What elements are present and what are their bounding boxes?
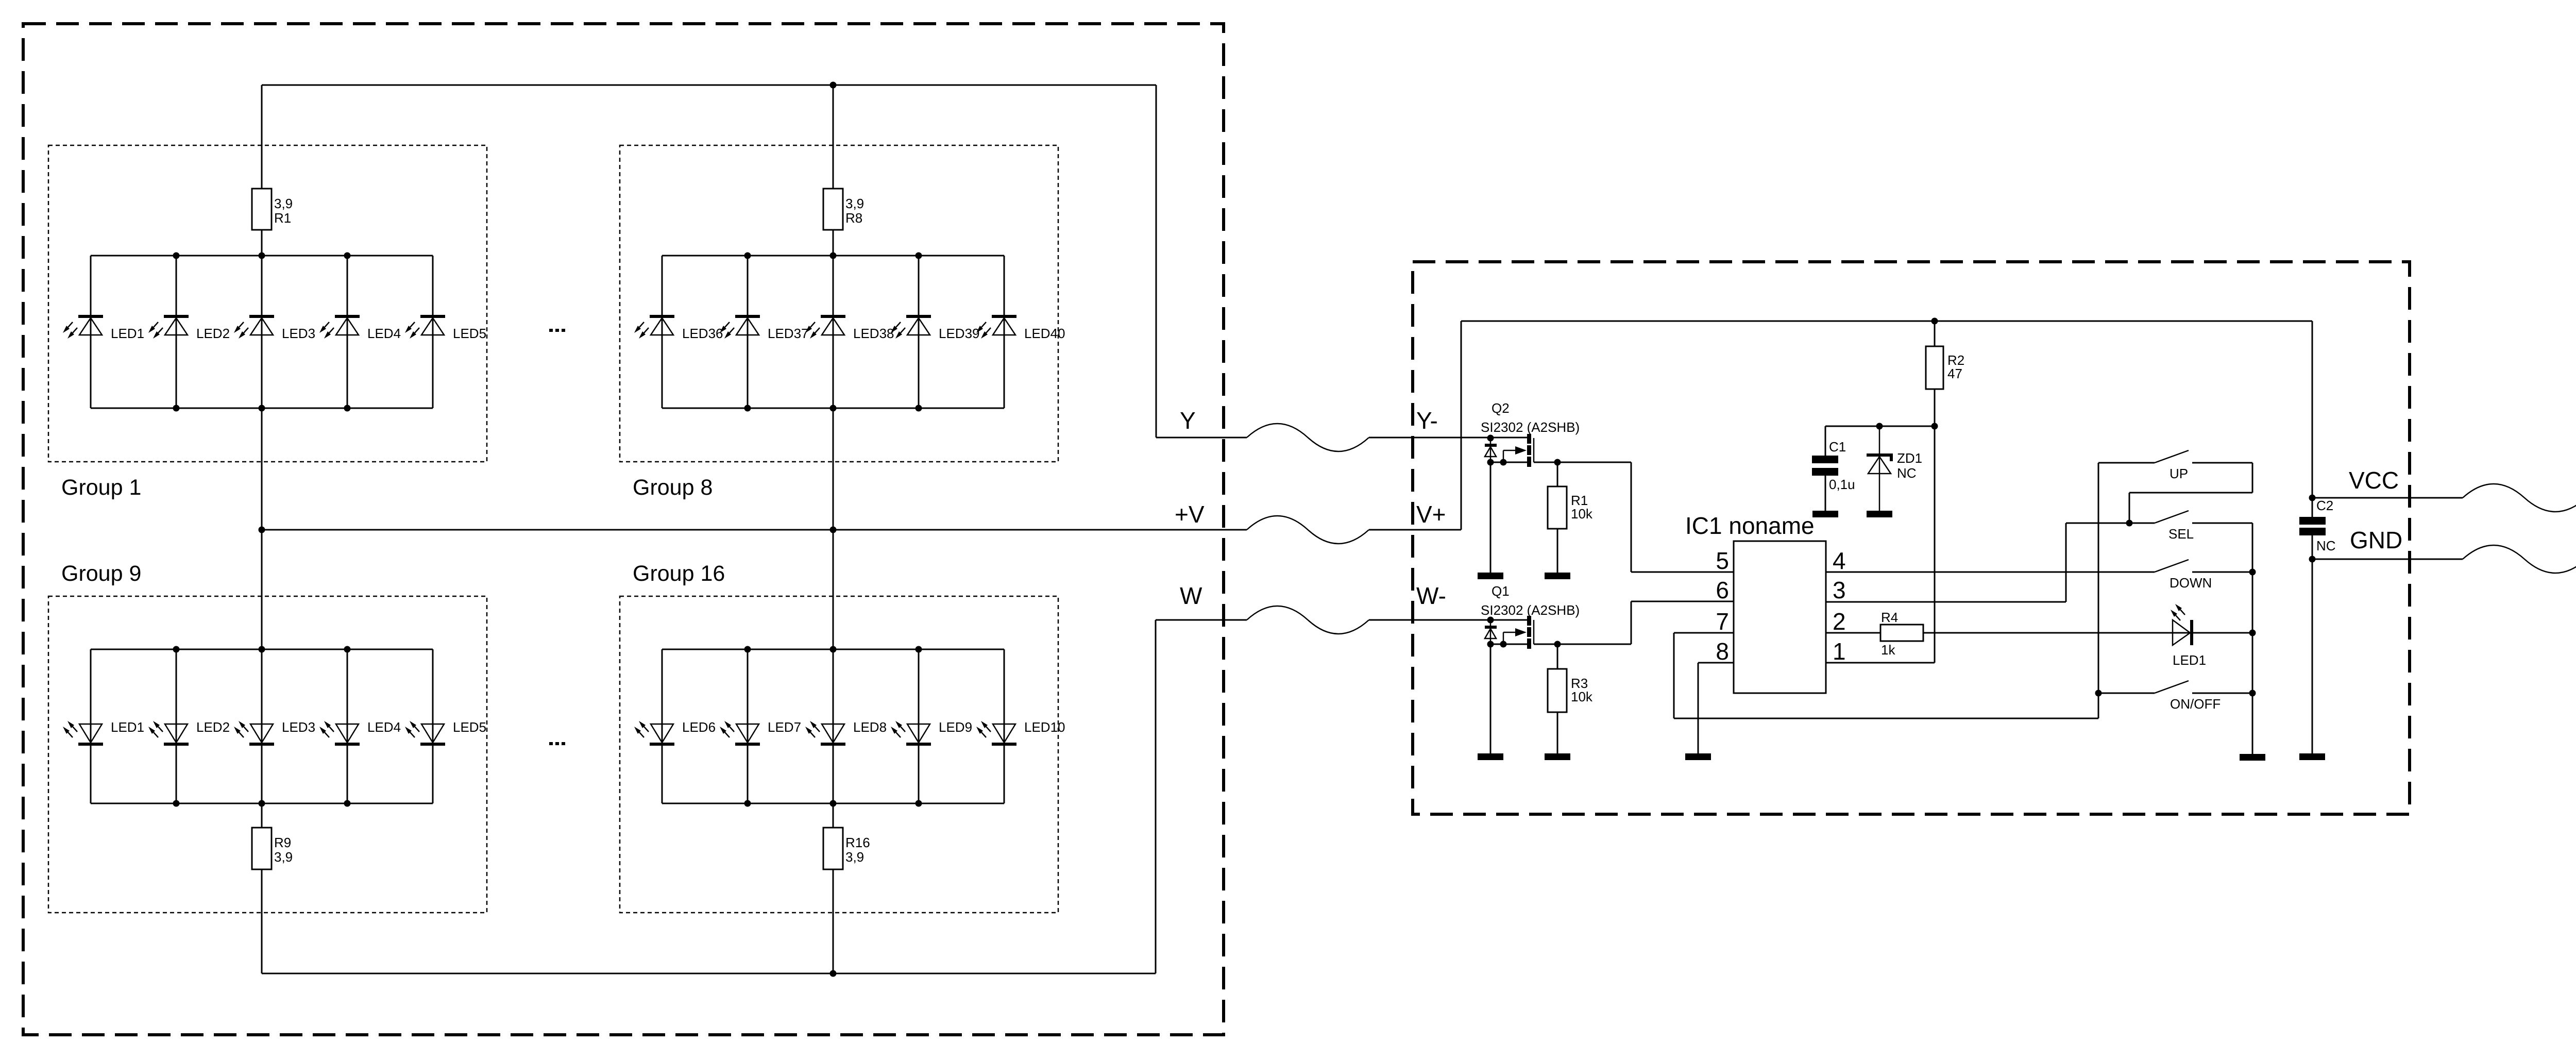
junctions on Group 16 anode rail (744, 646, 922, 653)
svg-text:LED3: LED3 (282, 719, 315, 735)
pin 7 (1716, 608, 1729, 635)
capacitor C2 NC (2299, 498, 2336, 559)
controller enclosure (dashed) (1413, 262, 2410, 814)
wire W- to Q1 drain (1369, 619, 1527, 621)
svg-text:Q1: Q1 (1492, 583, 1510, 599)
wire Q1 source to ground (1490, 644, 1492, 753)
wire +V bus to Group 9 anode rail (261, 530, 263, 649)
svg-text:NC: NC (1897, 465, 1917, 481)
wire Group 1 cathode rail to +V bus (261, 408, 263, 530)
wire pin 2 stub (1826, 632, 1880, 634)
junction ON/OFF left (2095, 690, 2102, 697)
svg-text:SEL: SEL (2168, 526, 2194, 542)
wire Y drop (1156, 85, 1157, 438)
svg-text:SI2302 (A2SHB): SI2302 (A2SHB) (1481, 602, 1580, 618)
Group 1 anode rail (91, 255, 433, 257)
junction SEL left (2126, 520, 2133, 527)
wire V+ riser (1461, 321, 1462, 530)
LED LED36 (Group 8) (634, 256, 723, 408)
wire R1 to ground (1557, 529, 1558, 573)
resistor R1 3,9 (252, 189, 293, 230)
switch DOWN (2155, 560, 2252, 572)
svg-text:4: 4 (1833, 547, 1846, 574)
wire top rail drop to VCC (2312, 321, 2313, 498)
switch SEL (2155, 511, 2252, 523)
pin 3 (1833, 577, 1846, 603)
ground right rail (2240, 754, 2265, 761)
wire bus to R8 (833, 85, 834, 189)
svg-text:8: 8 (1716, 638, 1729, 665)
svg-text:LED39: LED39 (939, 326, 980, 341)
svg-text:3,9: 3,9 (845, 196, 864, 211)
svg-text:LED2: LED2 (196, 326, 230, 341)
junction Q1 gate / R3 (1554, 641, 1561, 648)
LED LED39 (Group 8) (891, 256, 980, 408)
svg-text:C2: C2 (2316, 498, 2333, 513)
svg-text:C1: C1 (1829, 439, 1846, 455)
wire R8 to anode rail (833, 230, 834, 256)
ground C2 (2299, 753, 2325, 760)
wire bus to R1 (261, 85, 263, 189)
wire Y to cable (1156, 437, 1247, 439)
Group 8 anode rail (662, 255, 1004, 257)
svg-text:GND: GND (2350, 527, 2402, 553)
wire W bus (bottom) (262, 973, 1156, 974)
svg-text:R16: R16 (845, 835, 870, 850)
wire Group 8 cathode rail to +V bus (833, 408, 834, 530)
wire cathode rail to R9 (261, 803, 263, 828)
svg-text:R8: R8 (845, 210, 862, 226)
svg-text:0,1u: 0,1u (1829, 477, 1855, 492)
svg-text:V+: V+ (1416, 501, 1446, 528)
svg-text:W: W (1180, 582, 1202, 609)
pin 5 (1716, 547, 1729, 574)
LED LED2 (Group 9) (148, 649, 230, 803)
svg-text:LED1: LED1 (111, 326, 144, 341)
cable squiggle W (1247, 606, 1369, 634)
junctions on Group 16 cathode rail (744, 800, 922, 807)
junction Y bus / group8 (830, 82, 837, 89)
svg-text:Group 8: Group 8 (633, 475, 713, 500)
svg-text:LED37: LED37 (768, 326, 809, 341)
wire pin 1 to node riser (1826, 662, 1935, 664)
svg-text:UP: UP (2170, 466, 2188, 481)
LED LED40 (Group 8) (976, 256, 1065, 408)
Group 1 enclosure (dotted) (48, 145, 487, 462)
svg-text:1k: 1k (1881, 642, 1895, 658)
svg-text:DOWN: DOWN (2170, 575, 2212, 591)
wire ON/OFF left (2098, 693, 2155, 694)
LED LED2 (Group 1) (148, 256, 230, 408)
svg-text:2: 2 (1833, 608, 1846, 635)
svg-text:SI2302 (A2SHB): SI2302 (A2SHB) (1481, 419, 1580, 435)
junction VCC (2309, 495, 2316, 501)
svg-text:LED40: LED40 (1024, 326, 1065, 341)
ground C1 (1812, 511, 1838, 517)
ground ZD1 (1867, 511, 1892, 517)
transistor Q1 SI2302 (1485, 616, 1534, 649)
ground R1 (1545, 573, 1570, 579)
ground Q2 source (1478, 573, 1503, 579)
wire Q2 gate line (1534, 462, 1631, 463)
ground Q1 source (1478, 753, 1503, 760)
resistor R16 3,9 (823, 828, 870, 869)
svg-text:+V: +V (1175, 501, 1205, 528)
junction DOWN right (2249, 569, 2256, 576)
junction top rail / R2 (1931, 318, 1938, 325)
LED LED6 (Group 16) (634, 649, 716, 803)
junction Q2 gate / R1 (1554, 459, 1561, 466)
wire UP left (2098, 462, 2155, 464)
wire +V bus to Group 16 anode rail (833, 530, 834, 649)
svg-text:LED3: LED3 (282, 326, 315, 341)
svg-text:LED2: LED2 (196, 719, 230, 735)
wire Q1 gate line (1534, 644, 1631, 645)
svg-text:LED1: LED1 (111, 719, 144, 735)
Group 8 enclosure (dotted) (620, 145, 1058, 462)
pin 4 (1833, 547, 1846, 574)
wire VCC top rail (1461, 321, 2312, 322)
cable squiggle Y (1247, 424, 1369, 451)
wire pin 7 to switches (1674, 632, 1734, 634)
svg-text:1: 1 (1833, 638, 1846, 665)
IC IC1 body (1734, 541, 1826, 693)
svg-text:R9: R9 (274, 835, 291, 850)
wire VCC out (2312, 497, 2463, 499)
junction W bus / group16 (830, 970, 837, 977)
svg-text:Group 16: Group 16 (633, 561, 725, 586)
svg-text:ON/OFF: ON/OFF (2170, 696, 2221, 712)
svg-text:LED4: LED4 (367, 719, 401, 735)
svg-text:LED7: LED7 (768, 719, 801, 735)
wire R16 to W bus (833, 869, 834, 973)
switch UP (2155, 450, 2252, 463)
pin 8 (1716, 638, 1729, 665)
switch ON/OFF (2155, 681, 2252, 693)
zener diode ZD1 NC (1867, 426, 1922, 511)
resistor R3 10k (1548, 644, 1593, 712)
resistor R2 47 (1926, 321, 1964, 389)
wire SEL left (2066, 523, 2155, 524)
resistor R4 1k (1880, 610, 1923, 658)
svg-text:LED36: LED36 (682, 326, 723, 341)
wire C2 to ground (2312, 559, 2313, 753)
Group 9 anode rail (91, 649, 433, 650)
wire W to cable (1156, 619, 1247, 621)
wire Y- to Q2 drain (1369, 437, 1527, 439)
LED LED3 (Group 1) (234, 256, 315, 408)
LED LED10 (Group 16) (976, 649, 1065, 803)
LED LED4 (Group 1) (319, 256, 401, 408)
wire right rail (2252, 523, 2253, 754)
pin 2 (1833, 608, 1846, 635)
svg-text:Group 1: Group 1 (61, 475, 141, 500)
junctions on Group 9 anode rail (173, 646, 351, 653)
svg-text:3,9: 3,9 (274, 196, 293, 211)
svg-text:W-: W- (1416, 582, 1446, 609)
ground pin 8 (1685, 753, 1711, 760)
svg-text:IC1 noname: IC1 noname (1685, 512, 1815, 539)
cable squiggle VCC (2463, 484, 2576, 512)
resistor R1 10k (1548, 462, 1593, 529)
junction +V / group8-16 bus (830, 527, 837, 533)
wire R3 to ground (1557, 712, 1558, 753)
wire pin 8 to ground (1698, 662, 1734, 664)
junction LED1 right (2249, 630, 2256, 636)
LED LED3 (Group 9) (234, 649, 315, 803)
capacitor C1 0,1u (1812, 426, 1855, 511)
cable squiggle V (1247, 516, 1369, 544)
svg-text:10k: 10k (1571, 689, 1593, 704)
junction node rail / R2 (1931, 423, 1938, 430)
Group 8 cathode rail (662, 408, 1004, 409)
svg-text:LED5: LED5 (453, 719, 486, 735)
junctions on Group 1 cathode rail (173, 405, 351, 412)
wire UP/ONOFF riser (2098, 463, 2099, 718)
LED LED1 (Group 1) (63, 256, 144, 408)
svg-text:10k: 10k (1571, 506, 1593, 522)
wire pin 4 to DOWN switch (1826, 571, 2155, 573)
resistor R9 3,9 (252, 828, 293, 869)
svg-text:LED9: LED9 (939, 719, 972, 735)
Group 9 cathode rail (91, 803, 433, 804)
svg-text:LED4: LED4 (367, 326, 401, 341)
LED LED7 (Group 16) (720, 649, 801, 803)
svg-text:VCC: VCC (2349, 467, 2399, 494)
pin 6 (1716, 577, 1729, 603)
junction node rail / ZD1 (1876, 423, 1883, 430)
LED LED37 (Group 8) (720, 256, 809, 408)
junction +V / group1-9 bus (259, 527, 265, 533)
svg-text:Q2: Q2 (1492, 400, 1510, 416)
svg-text:47: 47 (1947, 366, 1962, 381)
ground R3 (1545, 753, 1570, 760)
wire cathode rail to R16 (833, 803, 834, 828)
svg-text:LED6: LED6 (682, 719, 716, 735)
wire pin 3 to SEL switch (1826, 601, 2066, 603)
svg-text:R4: R4 (1881, 610, 1898, 625)
junction ON/OFF right (2249, 690, 2256, 697)
junctions on Group 9 cathode rail (173, 800, 351, 807)
pin 1 (1833, 638, 1846, 665)
LED LED1 (Group 9) (63, 649, 144, 803)
wire GND out (2312, 559, 2463, 560)
junctions on Group 1 anode rail (173, 253, 351, 259)
svg-text:6: 6 (1716, 577, 1729, 603)
LED LED38 (Group 8) (805, 256, 894, 408)
junctions on Group 8 anode rail (744, 253, 922, 259)
junction GND (2309, 556, 2316, 563)
Group 1 cathode rail (91, 408, 433, 409)
LED LED1 (indicator) (2171, 604, 2252, 668)
wire Q1 gate to IC pin 6 (1631, 601, 1632, 644)
wire +V bus (262, 529, 1247, 531)
wire Q2 gate to IC pin 5 (1631, 462, 1632, 572)
LED panel enclosure (dashed) (23, 24, 1224, 1035)
wire Y bus (top) (262, 85, 1156, 86)
Group 16 anode rail (662, 649, 1004, 650)
svg-text:LED38: LED38 (853, 326, 894, 341)
ellipsis upper row (549, 329, 565, 332)
LED LED9 (Group 16) (891, 649, 972, 803)
svg-text:LED10: LED10 (1024, 719, 1065, 735)
svg-text:3,9: 3,9 (845, 849, 864, 865)
svg-text:LED8: LED8 (853, 719, 887, 735)
transistor Q1 label (1481, 583, 1580, 618)
resistor R8 3,9 (823, 189, 864, 230)
cable squiggle GND (2463, 545, 2576, 573)
node rail C1/ZD1 (1825, 426, 1935, 427)
Group 9 enclosure (dotted) (48, 596, 487, 913)
svg-text:7: 7 (1716, 608, 1729, 635)
LED LED5 (Group 9) (405, 649, 486, 803)
LED LED4 (Group 9) (319, 649, 401, 803)
svg-text:R1: R1 (274, 210, 291, 226)
svg-text:LED5: LED5 (453, 326, 486, 341)
transistor Q2 SI2302 (1485, 434, 1534, 467)
wire R1 to anode rail (261, 230, 263, 256)
transistor Q2 label (1481, 400, 1580, 435)
wire R2 to node rail (1934, 389, 1936, 426)
svg-text:NC: NC (2316, 538, 2336, 553)
svg-text:LED1: LED1 (2173, 652, 2206, 668)
svg-text:3: 3 (1833, 577, 1846, 603)
junctions on Group 8 cathode rail (744, 405, 922, 412)
wire W riser (1155, 620, 1157, 973)
svg-text:5: 5 (1716, 547, 1729, 574)
ellipsis lower row (549, 742, 565, 745)
wire node to IC pin 1 riser (1934, 426, 1936, 663)
wire Q2 source to ground (1490, 462, 1492, 573)
LED LED8 (Group 16) (805, 649, 887, 803)
svg-text:Group 9: Group 9 (61, 561, 141, 586)
wire UP right jog (2252, 463, 2253, 493)
svg-text:ZD1: ZD1 (1897, 450, 1922, 466)
svg-text:Y: Y (1180, 407, 1196, 434)
wire V+ to riser (1369, 529, 1461, 531)
svg-text:3,9: 3,9 (274, 849, 293, 865)
Group 16 cathode rail (662, 803, 1004, 804)
Group 16 enclosure (dotted) (620, 596, 1058, 913)
svg-text:Y-: Y- (1416, 407, 1438, 434)
LED LED5 (Group 1) (405, 256, 486, 408)
wire R4 to LED1 (1923, 632, 2190, 634)
wire R9 to W bus (261, 869, 263, 973)
